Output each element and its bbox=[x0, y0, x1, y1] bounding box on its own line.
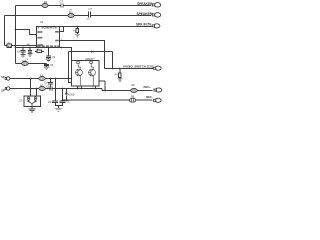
svg-text:473: 473 bbox=[69, 9, 72, 11]
svg-text:AGND: AGND bbox=[68, 93, 75, 96]
svg-text:Q1: Q1 bbox=[91, 49, 95, 53]
svg-text:REC+: REC+ bbox=[144, 85, 152, 89]
svg-text:SPK IN 5V: SPK IN 5V bbox=[136, 22, 152, 26]
svg-text:2: 2 bbox=[89, 62, 90, 64]
svg-text:U1: U1 bbox=[40, 20, 44, 24]
svg-text:C1: C1 bbox=[48, 101, 52, 104]
svg-text:C5: C5 bbox=[25, 59, 29, 61]
svg-text:R1: R1 bbox=[44, 0, 48, 4]
svg-text:SP: SP bbox=[1, 75, 5, 79]
svg-text:REC-: REC- bbox=[146, 95, 153, 99]
svg-text:5: 5 bbox=[61, 39, 62, 41]
svg-text:C5: C5 bbox=[50, 64, 54, 67]
svg-text:SPEAKER-: SPEAKER- bbox=[137, 2, 153, 6]
svg-text:UMD3N: UMD3N bbox=[85, 58, 94, 61]
svg-text:C7: C7 bbox=[60, 0, 64, 4]
svg-text:SPEAKER+: SPEAKER+ bbox=[137, 12, 154, 16]
svg-text:3: 3 bbox=[79, 87, 80, 89]
svg-text:AUDIO_SWITCH (CS): AUDIO_SWITCH (CS) bbox=[123, 65, 153, 69]
svg-text:C3: C3 bbox=[17, 50, 21, 53]
svg-text:SC6650F2B: SC6650F2B bbox=[42, 25, 57, 29]
svg-text:5: 5 bbox=[93, 87, 94, 89]
svg-text:SP: SP bbox=[1, 89, 5, 93]
svg-text:C6: C6 bbox=[66, 101, 70, 104]
svg-text:C8: C8 bbox=[44, 82, 48, 85]
svg-text:C4: C4 bbox=[52, 56, 56, 59]
svg-text:7: 7 bbox=[61, 30, 62, 32]
svg-text:R6: R6 bbox=[115, 74, 119, 76]
svg-text:MIC: MIC bbox=[27, 44, 31, 46]
svg-text:104: 104 bbox=[87, 18, 90, 20]
svg-text:C10: C10 bbox=[88, 9, 93, 11]
svg-text:R8: R8 bbox=[132, 84, 136, 87]
svg-text:D1: D1 bbox=[20, 99, 24, 102]
svg-text:2: 2 bbox=[76, 62, 77, 64]
